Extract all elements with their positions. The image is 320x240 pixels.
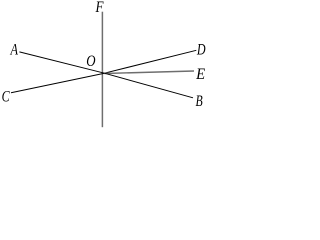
wire: ray OD [104,50,196,73]
wire: vertical line through O (ray OF extended down) [101,12,103,128]
svg-text:A: A [10,41,18,58]
wire: ray OB [104,73,193,98]
svg-text:E: E [195,66,205,83]
wire: ray OA [19,52,104,73]
svg-text:O: O [86,53,96,70]
svg-text:B: B [196,93,203,110]
wire: ray OE [104,71,194,74]
svg-text:F: F [95,0,104,16]
svg-text:D: D [196,42,206,59]
svg-text:C: C [2,89,10,106]
wire: ray OC [11,73,104,93]
